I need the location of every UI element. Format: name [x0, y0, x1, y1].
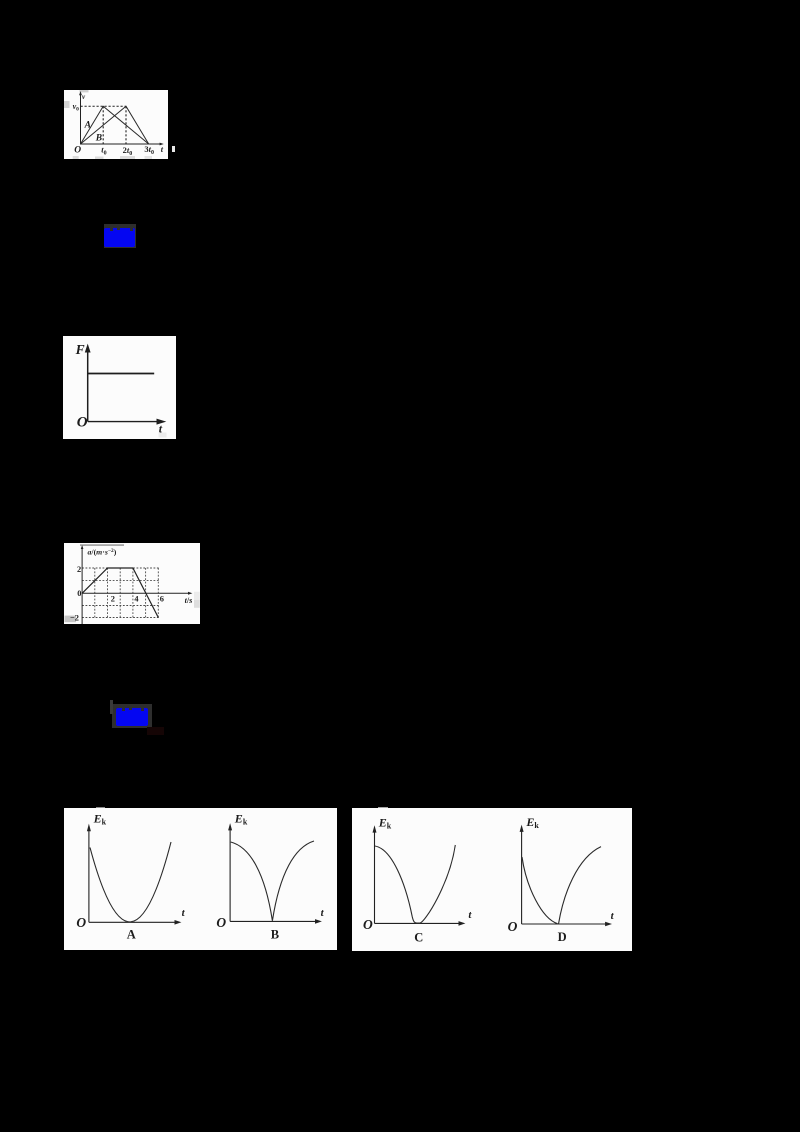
faint gray patch bottom right: [159, 433, 167, 438]
blue answer button 2: [112, 704, 152, 728]
svg-text:C: C: [414, 931, 423, 945]
vertical dashed gridline t=4: [132, 568, 134, 618]
dashed level v0: [81, 105, 127, 107]
svg-text:O: O: [77, 415, 88, 431]
vertical dashed gridline t=5: [145, 568, 147, 618]
svg-text:t: t: [161, 144, 164, 154]
svg-text:t: t: [468, 909, 472, 921]
constant force line: [88, 373, 154, 375]
vertical dashed gridline t=2: [107, 568, 109, 618]
option D: kinetic energy curve right branch: [559, 847, 602, 924]
F axis: [87, 348, 89, 422]
horizontal dashed gridline a=2: [82, 567, 160, 569]
svg-text:O: O: [76, 915, 86, 930]
gray smudge on panel 4 top edge (middle): [232, 808, 247, 811]
figure 5: Ek-t options C and D white panel: [352, 808, 632, 951]
gray smudge on panel 5 top edge: [378, 807, 389, 810]
svg-text:t/s: t/s: [185, 596, 193, 605]
option A: kinetic energy curve (parabola): [90, 842, 171, 922]
velocity line B: [81, 106, 149, 144]
gray patch right edge: [194, 592, 200, 600]
svg-text:2: 2: [111, 595, 115, 604]
svg-text:−2: −2: [70, 614, 79, 623]
svg-text:t: t: [611, 910, 615, 922]
option C: Ek axis: [374, 830, 376, 924]
option B: kinetic energy curve (cusp): [231, 841, 314, 921]
dashed vertical at 2t0: [125, 106, 127, 144]
option C: t axis: [375, 922, 463, 924]
svg-text:t0: t0: [101, 145, 106, 157]
option B: Ek axis: [229, 828, 231, 922]
svg-text:4: 4: [134, 595, 139, 604]
t axis: [82, 592, 190, 594]
option A: Ek axis: [88, 828, 90, 922]
svg-text:F: F: [75, 342, 85, 357]
gray smudge top edge: [80, 90, 89, 92]
option D: kinetic energy curve left branch: [522, 857, 558, 924]
option B: t axis: [230, 920, 318, 922]
option D: t axis: [522, 923, 609, 925]
svg-text:O: O: [74, 146, 81, 156]
svg-text:t: t: [321, 907, 325, 919]
svg-text:0: 0: [77, 589, 81, 598]
svg-text:O: O: [216, 915, 226, 930]
svg-text:O: O: [508, 919, 518, 934]
figure 2: F-t graph white panel: [63, 336, 176, 439]
figure 3: a-t graph white panel: [64, 543, 200, 624]
vertical dashed gridline t=1: [94, 568, 96, 618]
vertical dashed gridline t=6: [157, 568, 159, 618]
svg-text:B: B: [95, 134, 102, 144]
a axis: [81, 547, 83, 624]
svg-text:a/(m·s−2): a/(m·s−2): [88, 547, 117, 556]
dashed vertical at t0: [102, 106, 104, 144]
svg-text:2t0: 2t0: [123, 145, 133, 157]
svg-text:3t0: 3t0: [144, 144, 154, 156]
svg-text:2: 2: [77, 565, 81, 574]
svg-text:Ek: Ek: [378, 815, 392, 830]
horizontal dashed gridline a=-1: [82, 605, 160, 607]
acceleration polyline: [82, 568, 158, 618]
svg-text:v: v: [82, 93, 86, 101]
svg-text:D: D: [558, 930, 567, 944]
velocity line A: [81, 106, 149, 144]
svg-text:t: t: [182, 907, 186, 919]
option D: Ek axis: [521, 829, 523, 924]
svg-text:6: 6: [160, 595, 164, 604]
svg-text:A: A: [127, 927, 136, 941]
v axis: [80, 93, 82, 144]
faint maroon smudge under button 2: [147, 727, 164, 735]
svg-text:A: A: [84, 121, 91, 131]
gray smudge above panel 4 top edge (left): [96, 807, 105, 810]
svg-text:B: B: [271, 927, 279, 941]
option A: t axis: [89, 921, 178, 923]
svg-text:Ek: Ek: [525, 815, 539, 830]
gray patch bottom left: [65, 616, 77, 623]
gray smudges bottom edge: [73, 156, 79, 159]
vertical dashed gridline t=3: [119, 568, 121, 618]
horizontal dashed gridline a=1: [82, 579, 160, 581]
svg-text:Ek: Ek: [234, 811, 248, 826]
horizontal dashed gridline a=-2: [82, 617, 160, 619]
figure 1: v-t graph white panel: [64, 90, 168, 159]
figure 4: Ek-t options A and B white panel: [64, 808, 337, 950]
option C: kinetic energy curve: [375, 845, 455, 923]
t axis: [81, 143, 162, 145]
svg-text:Ek: Ek: [93, 811, 107, 826]
white sliver artifact right of figure 1: [172, 146, 175, 152]
svg-text:O: O: [363, 917, 373, 932]
t axis: [88, 421, 160, 423]
svg-text:v0: v0: [73, 102, 80, 113]
blue answer button 1: [104, 224, 136, 248]
gray strip top edge: [80, 544, 124, 546]
